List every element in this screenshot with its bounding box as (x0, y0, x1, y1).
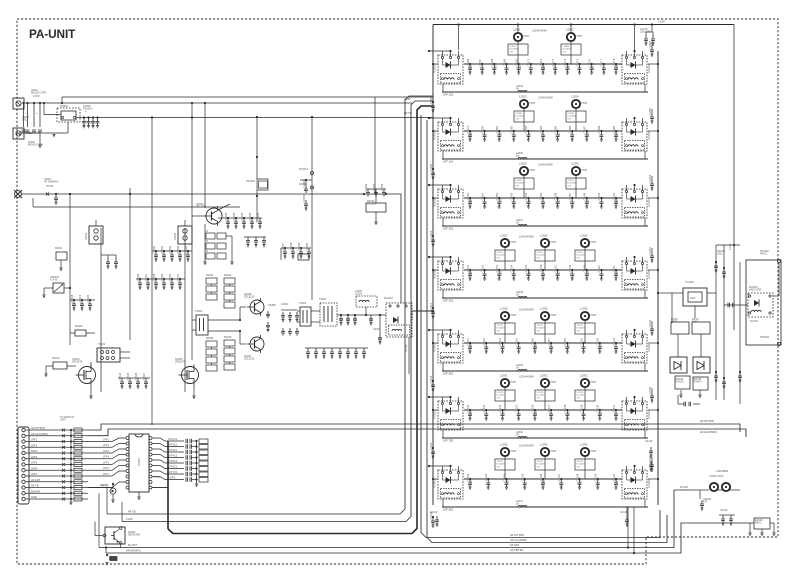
svg-text:C2134: C2134 (429, 442, 433, 450)
svg-text:DC250V: DC250V (577, 395, 586, 397)
wire bus RX ANT (99, 490, 693, 548)
svg-text:C2039: C2039 (160, 273, 164, 281)
svg-text:K2002: K2002 (174, 232, 177, 240)
resistor R2001 bias (56, 252, 67, 260)
svg-text:PA-UNIT: PA-UNIT (29, 27, 76, 41)
svg-text:C2140: C2140 (612, 473, 616, 481)
trimmer VR2001 (53, 283, 64, 293)
svg-text:C2048: C2048 (289, 242, 293, 250)
svg-text:DC250V: DC250V (577, 464, 586, 466)
svg-text:LPF7: LPF7 (31, 472, 38, 476)
transformer TC2004 (683, 288, 707, 306)
svg-text:L2028: L2028 (540, 234, 548, 238)
svg-text:C2089: C2089 (612, 125, 616, 133)
svg-text:RL2006: RL2006 (434, 198, 437, 207)
test point TP2001 (311, 172, 314, 175)
svg-text:C2124: C2124 (498, 404, 502, 412)
svg-text:PB6T: PB6T (511, 381, 518, 384)
svg-text:C2120: C2120 (596, 337, 600, 345)
connector J2004 multi-pin (18, 427, 29, 504)
filter row 4 inductors (501, 239, 509, 247)
svg-text:C2081: C2081 (495, 125, 499, 133)
svg-text:1H: 1H (516, 88, 519, 91)
inductor pair bottom right (710, 483, 718, 491)
svg-text:C2042: C2042 (224, 212, 228, 220)
balun T2003 dashed (320, 303, 337, 326)
svg-text:CH: CH (537, 397, 541, 399)
svg-text:HF TB: HF TB (128, 510, 136, 514)
svg-text:TP2003: TP2003 (760, 336, 769, 339)
svg-text:HHF1: HHF1 (692, 321, 699, 324)
svg-text:47μ/16V: 47μ/16V (83, 108, 93, 111)
wire LPF bank left bus (432, 25, 434, 506)
svg-text:C2122: C2122 (497, 325, 504, 327)
svg-text:C2091: C2091 (568, 113, 575, 115)
svg-text:C2053: C2053 (302, 194, 306, 202)
svg-text:RL2002: RL2002 (434, 64, 437, 73)
svg-text:C2018: C2018 (70, 294, 74, 302)
svg-text:C2031: C2031 (160, 245, 164, 253)
svg-text:+: + (25, 111, 27, 115)
svg-text:TO/RX: TO/RX (405, 344, 408, 352)
power relay RL2001 dashed (746, 260, 781, 345)
svg-text:R: R (206, 240, 208, 243)
svg-text:TC2004: TC2004 (685, 281, 695, 284)
svg-text:LPF 2E1: LPF 2E1 (443, 226, 454, 230)
svg-text:C2079: C2079 (510, 46, 517, 48)
svg-text:LPF6C2: LPF6C2 (168, 466, 178, 469)
svg-text:C2118: C2118 (563, 337, 567, 345)
wire column ties (211, 284, 213, 286)
svg-text:C2110: C2110 (597, 264, 601, 272)
diode D2003 (110, 488, 116, 494)
svg-text:C2074: C2074 (563, 58, 567, 66)
svg-text:C2088: C2088 (597, 125, 601, 133)
svg-text:1000: 1000 (690, 297, 696, 300)
svg-text:LPF7: LPF7 (103, 473, 110, 476)
svg-text:C2093: C2093 (648, 107, 652, 115)
svg-text:C2127: C2127 (547, 404, 551, 412)
svg-text:C2104: C2104 (510, 264, 514, 272)
svg-text:LPF5C2: LPF5C2 (168, 460, 178, 463)
resistor box bottom right (754, 518, 770, 529)
svg-text:L2040/4069A: L2040/4069A (519, 445, 534, 448)
filter row 5 left bus capacitor (432, 380, 434, 382)
svg-text:RL2003: RL2003 (648, 64, 651, 73)
svg-text:DC250V: DC250V (577, 328, 586, 330)
wire RX to relay (386, 194, 401, 303)
filter row 5 signal line (464, 342, 622, 344)
svg-text:C2134: C2134 (577, 392, 584, 394)
svg-text:1H: 1H (516, 294, 519, 297)
svg-text:C2102: C2102 (568, 180, 575, 182)
bead and ground bottom (109, 557, 112, 560)
capacitor C2058 pair mid (266, 311, 270, 318)
svg-text:C2043: C2043 (232, 212, 236, 220)
filter row 3 capacitor value boxes (514, 178, 534, 189)
capacitor cluster C2018 group (73, 299, 75, 301)
wire bus HF TB bottom (107, 96, 433, 514)
capacitor cluster post balun (340, 314, 342, 316)
svg-text:C2066: C2066 (466, 58, 470, 66)
svg-text:C2083: C2083 (524, 125, 528, 133)
wire RC ground rail (196, 441, 198, 484)
svg-text:LPF2: LPF2 (103, 444, 110, 447)
svg-text:PB6T: PB6T (511, 241, 518, 244)
svg-text:C2129: C2129 (579, 404, 583, 412)
svg-text:C2090: C2090 (516, 113, 523, 115)
svg-text:C2098: C2098 (583, 192, 587, 200)
svg-text:C2068: C2068 (490, 58, 494, 66)
svg-text:RL2012: RL2012 (434, 410, 437, 419)
svg-text:C2091: C2091 (480, 192, 484, 200)
svg-text:DC250V: DC250V (537, 395, 546, 397)
svg-text:L2036 L2037: L2036 L2037 (709, 475, 724, 478)
svg-text:PB6T: PB6T (591, 450, 598, 453)
svg-text:C2106: C2106 (539, 264, 543, 272)
svg-text:C2138: C2138 (575, 473, 579, 481)
svg-text:C2093: C2093 (510, 192, 514, 200)
filter row 6 left bus capacitor (432, 447, 434, 449)
svg-text:CH: CH (537, 330, 541, 332)
relay K2002 (178, 226, 192, 244)
capacitor bank C2006-C2009 on regulator output (76, 117, 433, 119)
svg-text:L2028: L2028 (580, 234, 588, 238)
filter row 7 left bus capacitor (432, 516, 434, 518)
transistor Q2004 power FET (79, 367, 96, 384)
svg-text:4.7k B: 4.7k B (50, 279, 57, 282)
svg-text:C2080: C2080 (480, 125, 484, 133)
filter row 4 right edge capacitor (650, 252, 654, 260)
svg-text:RF/LC: RF/LC (760, 253, 767, 256)
wire riser inner B (633, 507, 635, 553)
wire relay to bank (412, 310, 433, 312)
svg-text:PB6T: PB6T (551, 381, 558, 384)
svg-text:470: 470 (703, 501, 708, 504)
filter row 7 capacitor value boxes (495, 459, 515, 470)
filter row 6 right relay RL2013 (622, 401, 647, 430)
svg-text:ASDC24W: ASDC24W (749, 289, 762, 292)
svg-text:C2046: C2046 (256, 212, 260, 220)
svg-text:C2047: C2047 (281, 242, 285, 250)
svg-text:C2071: C2071 (527, 58, 531, 66)
svg-text:DC250V: DC250V (497, 328, 506, 330)
svg-text:DC250V: DC250V (497, 464, 506, 466)
resistor column B upper (224, 278, 235, 284)
transistor Q2020 predriver (206, 208, 222, 224)
svg-text:13.8V: 13.8V (729, 243, 732, 250)
filter row 6 left relay RL2012 (438, 401, 463, 430)
svg-text:C2072: C2072 (539, 58, 543, 66)
svg-text:HHF1: HHF1 (671, 321, 678, 324)
svg-text:C2107: C2107 (553, 264, 557, 272)
svg-text:T2004: T2004 (195, 310, 203, 313)
svg-text:C2126: C2126 (531, 404, 535, 412)
svg-text:C2056: C2056 (380, 183, 384, 191)
svg-text:TP2001: TP2001 (299, 168, 308, 171)
svg-text:C2101: C2101 (466, 264, 470, 272)
svg-text:R: R (206, 230, 208, 233)
resistor module A (675, 376, 690, 389)
svg-text:C2137: C2137 (557, 473, 561, 481)
svg-text:C2040: C2040 (168, 273, 172, 281)
svg-text:C2114: C2114 (498, 337, 502, 345)
wire vertical bus A (69, 196, 71, 345)
svg-text:DC250V: DC250V (568, 183, 577, 185)
filter row 7 left relay RL2014 (438, 470, 463, 499)
IC output RC networks (152, 438, 184, 441)
terminal TP2003 (777, 342, 780, 345)
svg-text:13.8V: 13.8V (33, 95, 40, 98)
svg-text:L2006: L2006 (355, 293, 363, 296)
svg-text:C2076: C2076 (587, 58, 591, 66)
wire vertical bus G (204, 103, 206, 208)
resistor R2008 (75, 330, 86, 336)
wire bus right HF ALC (427, 120, 667, 543)
svg-text:IC2001: IC2001 (60, 105, 69, 108)
relay K2001 (89, 226, 103, 244)
ground Q2005 (193, 385, 195, 396)
power FET module A (670, 357, 687, 373)
svg-text:C2100: C2100 (612, 192, 616, 200)
capacitor chain H (310, 180, 312, 222)
wire vertical bus C (129, 188, 131, 340)
svg-text:100μ: 100μ (22, 119, 28, 122)
svg-text:L2022: L2022 (566, 28, 574, 32)
filter row 2 right edge capacitor (650, 113, 654, 121)
svg-text:C2060: C2060 (281, 303, 289, 306)
filter row 2 shunt capacitors (469, 130, 471, 132)
svg-text:L2032: L2032 (540, 374, 548, 378)
filter row 3 right relay RL2007 (622, 189, 647, 218)
svg-text:C2075: C2075 (575, 58, 579, 66)
filter row 7 signal line (464, 478, 622, 480)
svg-text:PB6T: PB6T (591, 381, 598, 384)
svg-text:C2132: C2132 (497, 392, 504, 394)
svg-text:R2035: R2035 (224, 336, 232, 339)
svg-text:LPF 1E1: LPF 1E1 (443, 92, 454, 96)
capacitor cluster mid row1 (155, 250, 157, 252)
svg-text:L2040/4069A: L2040/4069A (538, 164, 553, 167)
svg-text:HF ATT(RX): HF ATT(RX) (700, 419, 714, 423)
svg-text:PB6T: PB6T (530, 169, 537, 172)
svg-text:13.8V: 13.8V (126, 517, 133, 521)
svg-text:MI 1/2W: MI 1/2W (367, 203, 377, 206)
svg-text:UNIT: UNIT (60, 419, 66, 422)
filter row 1 right edge capacitor (650, 46, 654, 54)
svg-text:HF TB: HF TB (31, 484, 39, 488)
transistor Q2007 driver (250, 337, 264, 351)
svg-text:RL2015: RL2015 (648, 479, 651, 488)
filter row 5 left relay RL2010 (438, 334, 463, 363)
svg-text:C2099: C2099 (597, 192, 601, 200)
svg-text:DC250V: DC250V (537, 255, 546, 257)
wire relay sense down (408, 337, 410, 374)
filter row 2 signal line (464, 130, 622, 132)
svg-text:C2024: C2024 (118, 372, 122, 380)
svg-text:L2040/4069A: L2040/4069A (519, 376, 534, 379)
svg-text:LPF2C2: LPF2C2 (168, 444, 178, 447)
junction dots RX line (69, 193, 71, 195)
svg-text:DC250V: DC250V (577, 255, 586, 257)
svg-text:DC250V: DC250V (537, 464, 546, 466)
filter row 7 bypass line (442, 506, 648, 508)
wire bus 13.8V bottom (122, 101, 433, 522)
svg-text:CH: CH (497, 257, 501, 259)
svg-text:1H: 1H (516, 222, 519, 225)
svg-text:PB6T: PB6T (524, 35, 531, 38)
capacitor cluster row7 right (649, 447, 653, 455)
svg-text:C2119: C2119 (579, 337, 583, 345)
svg-text:C2115: C2115 (514, 337, 518, 345)
test point TP2002a (311, 186, 314, 189)
svg-text:C2112: C2112 (466, 337, 470, 345)
svg-text:HF ATT(RX): HF ATT(RX) (31, 426, 45, 430)
svg-text:LPF2: LPF2 (31, 443, 38, 447)
svg-text:C2135: C2135 (521, 473, 525, 481)
filter row 1 signal line (464, 63, 622, 65)
wire filter ground rail (70, 430, 72, 502)
svg-text:C2109: C2109 (583, 264, 587, 272)
svg-text:C2123: C2123 (482, 404, 486, 412)
svg-text:CH: CH (577, 257, 581, 259)
svg-text:C2102: C2102 (480, 264, 484, 272)
svg-text:PB6T: PB6T (551, 314, 558, 317)
capacitor bank C2001-C2004 on 13.8V input (22, 102, 24, 104)
svg-text:L2040/4069A: L2040/4069A (538, 97, 553, 100)
svg-text:R: R (206, 250, 208, 253)
svg-text:LPF 3E1: LPF 3E1 (443, 298, 454, 302)
svg-text:C2092: C2092 (429, 163, 433, 171)
svg-text:TX/RX: TX/RX (153, 476, 161, 479)
svg-text:LPF7C2: LPF7C2 (168, 471, 178, 474)
filter row 6 right edge capacitor (650, 392, 654, 400)
svg-text:2200/16V: 2200/16V (640, 31, 651, 34)
svg-text:C2134: C2134 (502, 473, 506, 481)
transformer T2004 input (196, 315, 208, 335)
filter row 1 bypass inductor (518, 91, 527, 93)
wire TP link (773, 295, 779, 297)
svg-text:C2131: C2131 (612, 404, 616, 412)
filter row 2 inductors (520, 100, 528, 108)
filter row 4 shunt capacitors (469, 269, 471, 271)
filter row 4 capacitor value boxes (495, 250, 515, 261)
svg-text:RL2010: RL2010 (384, 297, 393, 300)
ground Q2004 source (90, 385, 92, 396)
wire ground rail input caps (19, 132, 68, 134)
ferrite bead on RX line (46, 193, 49, 196)
capacitor cluster K area (106, 258, 110, 266)
svg-text:C2085: C2085 (553, 125, 557, 133)
svg-text:CH: CH (497, 397, 501, 399)
svg-text:CH: CH (568, 118, 572, 120)
transistor Q2001 switch box (105, 527, 125, 544)
svg-text:C2084: C2084 (539, 125, 543, 133)
resistor column A upper (206, 278, 217, 284)
svg-text:C2124: C2124 (577, 325, 584, 327)
svg-text:CH: CH (516, 185, 520, 187)
wire right main vertical 13.8V (733, 25, 735, 331)
capacitor cluster right verticals (714, 262, 718, 270)
svg-text:C2114: C2114 (577, 252, 584, 254)
svg-text:RL2007: RL2007 (648, 198, 651, 207)
transistor Q2005 power FET (182, 367, 199, 384)
filter row 2 left relay RL2004 (438, 122, 463, 151)
filter row 4 left bus capacitor (432, 307, 434, 309)
svg-text:C2112: C2112 (497, 252, 504, 254)
filter row 2 left bus capacitor (432, 168, 434, 170)
transformer T2002 interstage (300, 307, 311, 326)
svg-text:L2030: L2030 (580, 307, 588, 311)
svg-text:L2040/4069A: L2040/4069A (519, 236, 534, 239)
wire right verticals power (715, 245, 717, 400)
filter row 6 inductors (501, 379, 509, 387)
connector J2001 13.8V (13, 98, 24, 109)
capacitor cluster mid extra (246, 237, 250, 245)
svg-text:LPF 9E1: LPF 9E1 (443, 507, 454, 511)
trimmer VR2002 on bus (257, 179, 268, 190)
svg-text:C2050: C2050 (305, 242, 309, 250)
svg-text:CH: CH (516, 118, 520, 120)
wire vertical bus F (191, 118, 193, 361)
filter row 2 capacitor value boxes (514, 111, 534, 122)
svg-text:PB6T: PB6T (551, 241, 558, 244)
svg-text:VR2002: VR2002 (246, 180, 256, 183)
svg-text:C2122: C2122 (466, 404, 470, 412)
transformer T2001 (97, 348, 120, 362)
svg-text:GND: GND (26, 132, 32, 135)
svg-text:C2032: C2032 (168, 245, 172, 253)
svg-text:C2133: C2133 (484, 473, 488, 481)
wire bank top 13.8V rail (433, 24, 734, 26)
svg-text:C2020: C2020 (86, 294, 90, 302)
svg-text:C2103: C2103 (429, 230, 433, 238)
filter row 6 shunt capacitors (469, 409, 471, 411)
svg-text:PB6T: PB6T (511, 450, 518, 453)
svg-text:C2128: C2128 (563, 404, 567, 412)
svg-text:PB6T: PB6T (582, 169, 589, 172)
svg-text:L2040/4069A: L2040/4069A (519, 309, 534, 312)
inductor module L2005 dashed (356, 296, 377, 307)
filter row 3 left bus capacitor (432, 235, 434, 237)
svg-text:CH: CH (537, 466, 541, 468)
wire upper rail (62, 96, 433, 98)
svg-text:CH: CH (577, 466, 581, 468)
filter row 7 bypass inductor (518, 506, 527, 508)
filter row 1 left relay RL2002 (438, 55, 463, 84)
transistor Q2006 driver (250, 300, 264, 314)
wire LPF bank right bus (657, 51, 659, 505)
svg-text:RL2009: RL2009 (648, 270, 651, 279)
capacitor cluster G (284, 247, 286, 249)
capacitor cluster mid row2 (139, 278, 141, 280)
wire vertical bus B (100, 228, 102, 392)
svg-text:IC2002: IC2002 (138, 457, 141, 466)
svg-text:R2031: R2031 (224, 274, 232, 277)
svg-text:LPF3: LPF3 (31, 449, 38, 453)
filter row 5 shunt capacitors (469, 342, 471, 344)
wire vertical bus J (374, 97, 376, 189)
capacitor C2064 (379, 315, 381, 334)
svg-text:C2135: C2135 (648, 386, 652, 394)
svg-text:PB6T: PB6T (530, 102, 537, 105)
wire vertical bus E (184, 228, 186, 392)
svg-text:C2113: C2113 (482, 337, 486, 345)
IC2002 LPF decoder (129, 434, 149, 492)
svg-text:CH: CH (497, 330, 501, 332)
driver module RD16HHF1 A (671, 322, 689, 334)
svg-text:HF ANT: HF ANT (510, 543, 520, 547)
